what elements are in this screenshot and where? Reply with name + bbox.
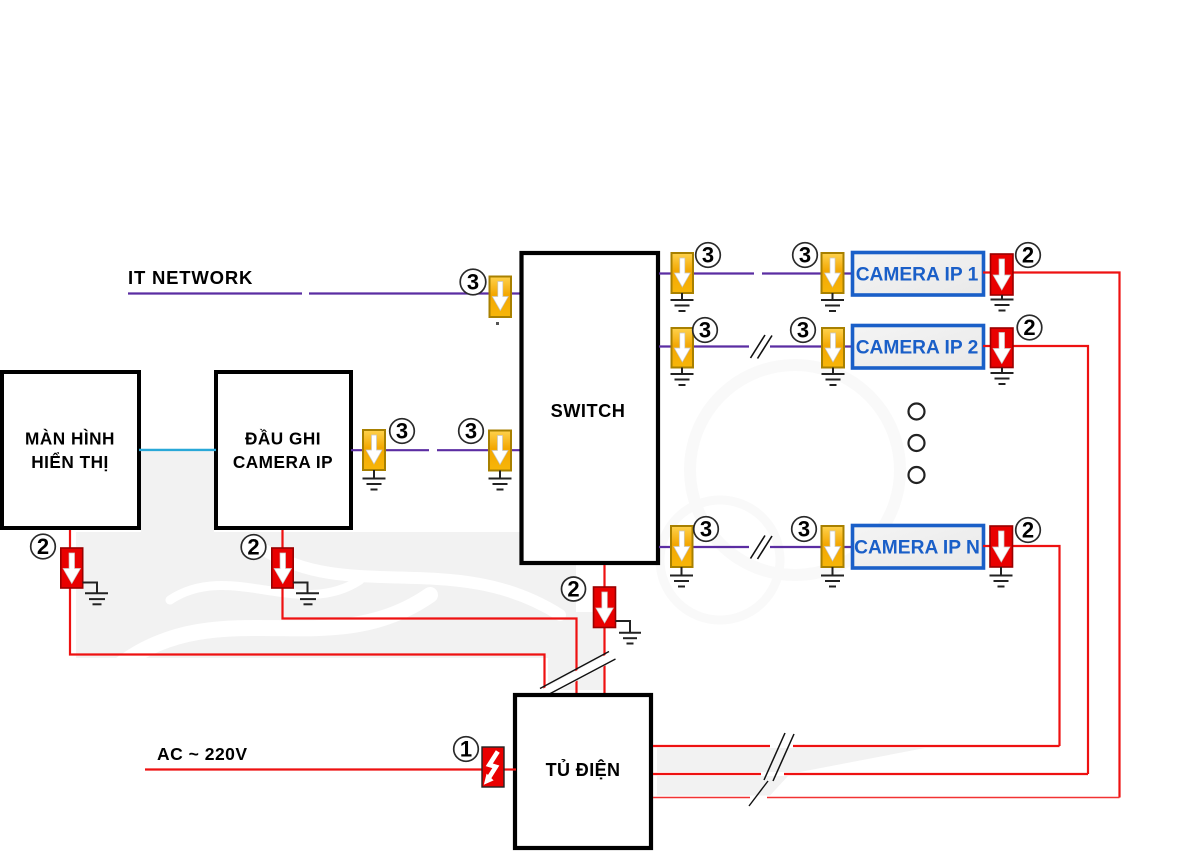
svg-text:2: 2 bbox=[247, 535, 259, 560]
SPD type3 F9 bbox=[822, 526, 844, 567]
SPD type2 RN bbox=[990, 526, 1013, 567]
SPD type1 Q1 (lightning) bbox=[482, 747, 504, 787]
label 3 (F4) bbox=[696, 243, 721, 268]
svg-text:2: 2 bbox=[1022, 518, 1034, 543]
svg-text:AC ~ 220V: AC ~ 220V bbox=[157, 744, 248, 764]
SPD type3 F4 bbox=[672, 253, 694, 293]
ground of F6 bbox=[671, 368, 694, 386]
wire: camera N power (red) bbox=[983, 546, 1060, 746]
box: MAN HINH HIEN THI (monitor) bbox=[2, 372, 139, 528]
SPD type3 F5 bbox=[822, 253, 844, 293]
ground of R6 bbox=[616, 621, 642, 644]
SPD type3 F2 bbox=[363, 430, 385, 470]
ellipsis dots bbox=[909, 404, 925, 484]
box: SWITCH bbox=[522, 253, 659, 563]
label 3 (F8) bbox=[694, 517, 719, 542]
break mark on camera N line bbox=[751, 536, 773, 560]
wire: switch power (red) bbox=[603, 565, 605, 695]
ground of F2 bbox=[363, 470, 386, 490]
wire: cabinet to camera N feeder (red) bbox=[653, 745, 1060, 747]
wire: monitor power (red) bbox=[70, 530, 545, 695]
ground of R2 bbox=[991, 368, 1014, 385]
wire: switch to camera N (purple) bbox=[659, 546, 852, 548]
wire: cabinet to camera 1 feeder (red) bbox=[653, 797, 1120, 799]
svg-text:HIỂN THỊ: HIỂN THỊ bbox=[31, 452, 109, 472]
SPD type2 R6 (switch) bbox=[594, 587, 616, 628]
ground of R5 bbox=[293, 583, 319, 605]
svg-text:3: 3 bbox=[799, 243, 811, 268]
svg-text:CAMERA IP N: CAMERA IP N bbox=[854, 538, 980, 559]
label 3 (F6) bbox=[693, 318, 718, 343]
label 2 (R6) bbox=[562, 577, 586, 602]
svg-text:3: 3 bbox=[465, 419, 477, 444]
svg-text:3: 3 bbox=[699, 318, 711, 343]
wire: camera 1 power (red) bbox=[983, 273, 1120, 798]
wire: recorder to switch (purple) bbox=[351, 449, 520, 451]
svg-text:SWITCH: SWITCH bbox=[551, 401, 626, 421]
cable break to cabinet (slashes) bbox=[540, 652, 616, 696]
wire: switch to camera 1 (purple) bbox=[659, 272, 852, 274]
svg-text:CAMERA IP 2: CAMERA IP 2 bbox=[856, 338, 979, 359]
label 3 (F1) bbox=[460, 269, 486, 295]
SPD type2 R4 (monitor) bbox=[61, 548, 83, 588]
ground of R4 bbox=[83, 583, 108, 605]
break mark on camera 1 feeder bbox=[749, 781, 768, 806]
label 2 (R4) bbox=[31, 534, 56, 559]
svg-text:3: 3 bbox=[798, 517, 810, 542]
SPD type2 R2 bbox=[991, 328, 1014, 368]
ground of F3 bbox=[489, 471, 512, 490]
svg-text:2: 2 bbox=[1023, 315, 1035, 340]
svg-text:ĐẦU GHI: ĐẦU GHI bbox=[245, 429, 321, 449]
box: DAU GHI CAMERA IP (recorder) bbox=[216, 372, 351, 528]
ground of F5 bbox=[821, 293, 844, 311]
wire: recorder power (red) bbox=[283, 530, 577, 695]
break mark on camera 2 line bbox=[751, 335, 773, 359]
label 3 (F5) bbox=[793, 243, 818, 268]
wire: AC mains (red) bbox=[145, 768, 516, 770]
ground of RN bbox=[990, 567, 1013, 587]
box: CAMERA IP 2 bbox=[853, 326, 984, 369]
cable break to cabinet (white gap) bbox=[537, 652, 616, 700]
ground of F7 bbox=[822, 368, 845, 386]
SPD type3 F3 bbox=[489, 431, 511, 471]
box: CAMERA IP N bbox=[853, 526, 984, 569]
wire: cabinet to camera 2 feeder (red) bbox=[653, 773, 1088, 775]
label 3 (F7) bbox=[791, 318, 816, 343]
SPD type3 F7 bbox=[822, 328, 844, 368]
label 3 (F3) bbox=[459, 419, 484, 444]
wire: switch to camera 2 (purple) bbox=[659, 345, 852, 347]
SPD type3 F1 (IT network) bbox=[490, 277, 512, 326]
svg-text:MÀN HÌNH: MÀN HÌNH bbox=[25, 429, 115, 449]
label 3 (F9) bbox=[792, 517, 817, 542]
wire: monitor-recorder link bbox=[139, 449, 216, 451]
svg-text:1: 1 bbox=[460, 737, 472, 762]
label 2 (R2) bbox=[1017, 315, 1042, 340]
svg-text:2: 2 bbox=[37, 534, 49, 559]
wire: camera 2 power (red) bbox=[983, 346, 1088, 774]
svg-text:CAMERA IP: CAMERA IP bbox=[233, 452, 333, 472]
svg-text:3: 3 bbox=[702, 243, 714, 268]
svg-text:3: 3 bbox=[700, 517, 712, 542]
svg-text:3: 3 bbox=[797, 318, 809, 343]
ground of R1 bbox=[991, 295, 1014, 311]
label 2 (RN) bbox=[1016, 518, 1041, 543]
wire: IT NETWORK line bbox=[128, 292, 520, 294]
ground of F9 bbox=[821, 567, 844, 587]
label 2 (R5) bbox=[241, 535, 266, 560]
label 2 (R1) bbox=[1016, 243, 1041, 268]
SPD type3 F6 bbox=[672, 328, 694, 368]
box: CAMERA IP 1 bbox=[853, 253, 984, 296]
svg-text:IT NETWORK: IT NETWORK bbox=[128, 267, 253, 288]
svg-text:CAMERA IP 1: CAMERA IP 1 bbox=[856, 265, 979, 286]
box: TU DIEN (cabinet) bbox=[515, 695, 651, 848]
label 3 (F2) bbox=[390, 419, 415, 444]
svg-text:3: 3 bbox=[396, 419, 408, 444]
svg-text:3: 3 bbox=[467, 270, 479, 295]
ground of F8 bbox=[670, 567, 693, 587]
svg-text:2: 2 bbox=[1022, 243, 1034, 268]
svg-text:2: 2 bbox=[567, 577, 579, 602]
ground of F4 bbox=[671, 293, 694, 311]
break mark on feeder pair bbox=[764, 733, 794, 781]
SPD type2 R5 (recorder) bbox=[272, 548, 293, 588]
svg-text:TỦ ĐIỆN: TỦ ĐIỆN bbox=[546, 759, 621, 780]
SPD type2 R1 bbox=[991, 254, 1014, 295]
SPD type3 F8 bbox=[671, 526, 693, 567]
label 1 (Q1) bbox=[454, 737, 479, 762]
